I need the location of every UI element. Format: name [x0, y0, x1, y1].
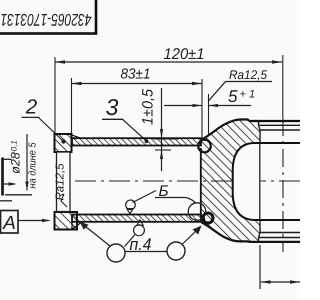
dimension 120±1 line [55, 60, 282, 63]
svg-text:120±1: 120±1 [164, 46, 205, 63]
dimension 5+1 [164, 104, 251, 107]
view A box [1, 211, 19, 235]
extension line 83 left [71, 78, 73, 133]
fork outer top edge [201, 120, 300, 141]
fork outer bottom edge [202, 222, 301, 242]
svg-text:83±1: 83±1 [121, 67, 151, 83]
leader left balloon to cap weld arrow [80, 222, 111, 247]
fork hatched bell section [201, 120, 261, 242]
slot bottom edge [254, 219, 300, 221]
weld circle top [198, 140, 211, 153]
small arrow right [3, 183, 10, 185]
cap bore roughness Ra12,5 rotated [55, 163, 68, 207]
leader right balloon to fork weld arrow [182, 226, 202, 245]
weld bead bottom (filled) [200, 217, 205, 222]
fork left face [200, 148, 202, 214]
extension line left (cap left face) [54, 57, 56, 133]
bottom right dimension [260, 245, 300, 289]
svg-text:432065-1703131: 432065-1703131 [1, 10, 92, 29]
svg-text:-0,1: -0,1 [10, 140, 19, 154]
svg-text:А: А [2, 213, 16, 234]
cap bore [57, 152, 71, 212]
cap (pos 2) top wall [55, 134, 72, 152]
balloon circle right [167, 242, 185, 260]
svg-text:2: 2 [25, 95, 38, 118]
thick edge line at image left [1, 158, 4, 196]
dimension 83±1 line [72, 82, 203, 85]
tube bottom wall [72, 215, 201, 222]
slot top edge [254, 142, 300, 144]
svg-text:Ra12,5: Ra12,5 [55, 163, 67, 201]
Ø28 dimension cluster [0, 134, 39, 201]
extension line 83 right / weld face [201, 79, 203, 139]
slot end face [259, 143, 261, 220]
fork slot cavity outline [233, 143, 254, 220]
pin hole axis vertical [282, 118, 284, 252]
callout 3 [102, 94, 148, 143]
svg-text:5: 5 [228, 87, 238, 106]
tube (pos 3) top wall [72, 138, 201, 145]
svg-text:1±0,5: 1±0,5 [140, 88, 157, 125]
fork bottom step lines [259, 220, 301, 242]
svg-text:на длине 5: на длине 5 [28, 142, 39, 188]
dimension line vertical with down arrow [26, 134, 28, 191]
svg-text:ø28: ø28 [9, 152, 23, 174]
svg-text:3: 3 [106, 94, 119, 120]
line between balloons [125, 251, 167, 253]
extension line 5+1 right [208, 94, 210, 135]
label Б [155, 183, 196, 204]
view A arrow [18, 219, 51, 223]
cap bottom wall [55, 212, 78, 230]
stamp box top-left [0, 0, 96, 34]
cap weld flare bottom [72, 222, 82, 229]
dimension 1±0,5 (wall thickness) [140, 88, 180, 171]
centerline horizontal axis [75, 180, 300, 182]
svg-text:Ra12,5: Ra12,5 [229, 68, 267, 82]
detail circle Б [188, 203, 205, 220]
extension line right (to fork axis) [282, 55, 284, 118]
cap weld flare top [72, 135, 82, 139]
roughness Ra12,5 top right [208, 68, 272, 102]
svg-text:+ 1: + 1 [240, 89, 256, 101]
fork top step lines [259, 121, 301, 143]
weld marker upper (circle + open arrow to Б) [126, 191, 156, 214]
callout 2 [22, 95, 66, 143]
balloon circle left [107, 244, 125, 262]
weld marker lower (circle + open arrow to п.4) [125, 220, 145, 247]
weld circle bottom [203, 213, 213, 223]
